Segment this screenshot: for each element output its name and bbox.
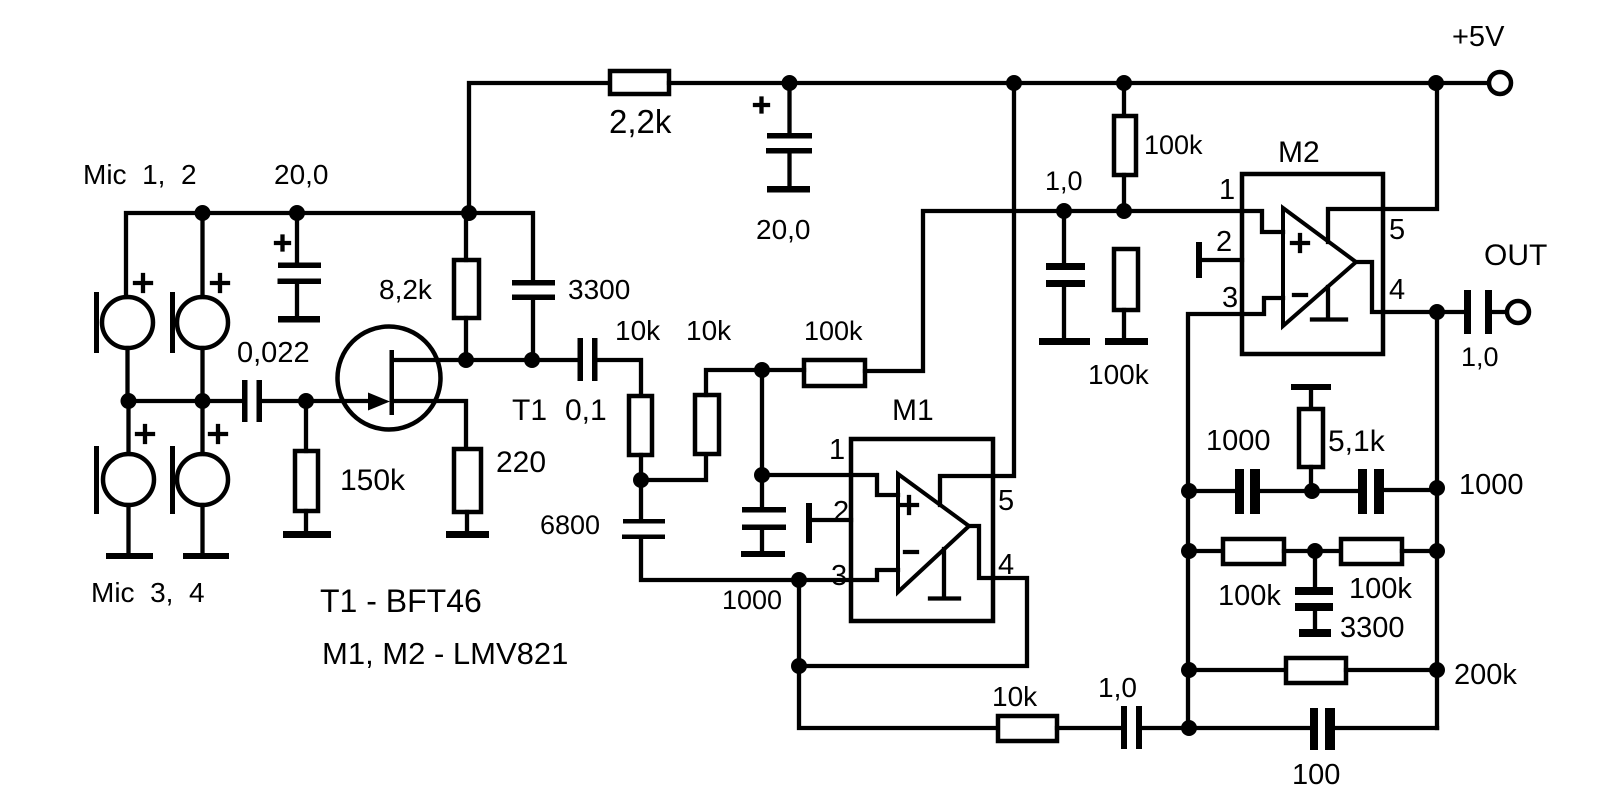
wire: M1 pin5 to +5V rail: [993, 83, 1014, 476]
wire: R9 right lead up to mid rail: [865, 211, 1242, 371]
wire: R9 left lead: [762, 368, 804, 372]
node: junction row2 left rail: [1181, 543, 1197, 559]
op-amp M2 triangle: [1283, 208, 1356, 326]
wire: mic signal bus to C3: [128, 399, 242, 403]
transistor Q1: gate arrow: [368, 393, 390, 411]
capacitor C2 20,0: top lead: [787, 83, 791, 133]
resistor R12 100k: [1341, 539, 1402, 564]
microphone Mic4: capsule bar: [170, 446, 175, 514]
capacitor C6 1,0: bottom lead: [1062, 287, 1066, 338]
node: junction row1 middle: [1304, 483, 1320, 499]
node: junction feedback/pin3 drop: [791, 658, 807, 674]
ground: mic3: [106, 553, 153, 559]
op-amp M2: pin3 internal stub: [1242, 298, 1283, 314]
svg-text:6800: 6800: [540, 510, 600, 540]
svg-text:0,1: 0,1: [565, 394, 607, 427]
svg-text:5,1k: 5,1k: [1328, 425, 1386, 458]
op-amp M2: pin2 open bar: [1196, 242, 1202, 278]
resistor R3 150k: [295, 451, 318, 511]
resistor R6 100k: [1114, 249, 1138, 310]
wire: 8,2k bottom lead: [464, 318, 468, 360]
capacitor C4 3300: plates: [512, 280, 555, 286]
node: junction row1 right rail: [1429, 480, 1445, 496]
svg-text:20,0: 20,0: [756, 214, 811, 245]
ground: 220: [446, 531, 489, 538]
node: junction M1 pin1 net top: [754, 362, 770, 378]
node: junction C1 on top rail: [289, 205, 305, 221]
wire: mic3 to ground: [126, 505, 130, 553]
svg-text:1000: 1000: [1206, 425, 1271, 457]
node: junction mic2 bus: [195, 393, 211, 409]
svg-text:1000: 1000: [1459, 469, 1524, 501]
capacitor C10 3300: top lead: [1313, 551, 1317, 587]
svg-text:10k: 10k: [992, 681, 1038, 712]
capacitor C10 3300: bottom stub: [1313, 611, 1317, 629]
op-amp M1: pin1 internal stub: [851, 475, 898, 495]
wire: +5V rail: [669, 81, 1488, 85]
capacitor C6 1,0: top lead: [1062, 211, 1066, 263]
op-amp M1: output to pin4: [969, 526, 993, 578]
op-amp M1: pin5 internal stub: [940, 476, 993, 505]
wire: R5 bottom lead: [1122, 175, 1126, 211]
wire: 150k top lead: [304, 401, 308, 451]
svg-text:1: 1: [829, 434, 845, 466]
resistor R10 5,1k: top stub: [1309, 390, 1313, 409]
svg-text:4: 4: [1389, 274, 1405, 306]
wire: mic4 to ground: [200, 505, 204, 553]
capacitor C7 6800: bottom lead to pin3 line: [641, 539, 851, 580]
microphone Mic3: + polarity: [137, 426, 153, 442]
wire: mic1 bottom to bus: [125, 348, 129, 401]
wire: R13 to C13: [1057, 726, 1121, 730]
svg-text:T1 - BFT46: T1 - BFT46: [320, 583, 482, 619]
svg-text:10k: 10k: [686, 315, 732, 346]
svg-text:3300: 3300: [1340, 612, 1405, 644]
node: junction row2 middle: [1307, 543, 1323, 559]
svg-text:M2: M2: [1278, 136, 1320, 169]
wire: feedback row1 left: [1189, 489, 1235, 493]
resistor R10 5,1k: top bar: [1291, 384, 1331, 390]
microphone Mic1: + polarity: [135, 275, 151, 291]
svg-text:OUT: OUT: [1484, 239, 1547, 272]
node: junction mic1 bus: [121, 393, 137, 409]
svg-text:1,0: 1,0: [1461, 342, 1499, 372]
node: junction R5/R6 on mid rail: [1116, 203, 1132, 219]
svg-text:8,2k: 8,2k: [379, 274, 433, 305]
op-amp M1: pin2 stub: [812, 518, 851, 522]
wire: C3 to gate node: [262, 399, 306, 403]
wire: bus down to mic3: [126, 401, 130, 454]
capacitor C2 20,0: + polarity: [755, 99, 768, 112]
node: junction row3 left rail: [1181, 662, 1197, 678]
resistor R1 2,2k: [610, 71, 669, 94]
op-amp M2: output to pin4: [1356, 262, 1383, 312]
wire: M2 pin4 out to C12: [1383, 310, 1464, 314]
svg-text:2: 2: [833, 496, 849, 528]
wire: pin1 net vertical: [760, 370, 764, 507]
ground: 150k: [283, 531, 331, 538]
wire: C5 to 10k R7: [597, 360, 641, 396]
svg-text:100k: 100k: [1349, 573, 1412, 605]
svg-text:100k: 100k: [1088, 359, 1150, 390]
wire: R5 top lead: [1122, 83, 1126, 116]
transistor Q1: source wire to 220: [393, 401, 466, 449]
microphone Mic3: capsule bar: [94, 446, 99, 514]
node: junction mic2 on top rail: [195, 205, 211, 221]
capacitor C2 20,0: plates: [767, 133, 812, 139]
node: junction output: [1429, 304, 1445, 320]
op-amp M2: pin2 stub: [1202, 258, 1242, 262]
capacitor C7 6800: plates: [623, 519, 665, 524]
capacitor C10 3300: plates: [1295, 587, 1333, 595]
svg-text:M1: M1: [892, 394, 934, 427]
wire: M1 feedback pin4 loop: [799, 578, 1027, 666]
wire: bottom row left: [1189, 726, 1310, 730]
wire: mic2 drop from top rail: [200, 213, 204, 297]
wire: row2 middle: [1284, 549, 1341, 553]
svg-text:1,0: 1,0: [1098, 672, 1137, 703]
svg-text:M1, M2 - LMV821: M1, M2 - LMV821: [322, 636, 568, 671]
wire: R6 bottom lead: [1122, 310, 1126, 338]
ground: C8: [741, 551, 785, 557]
op-amp M2: pin1 internal stub: [1242, 211, 1283, 232]
op-amp M1: power tail: [930, 549, 959, 599]
svg-text:3: 3: [1222, 282, 1238, 314]
wire: M2 pin3 to left feedback rail: [1188, 314, 1242, 728]
microphone Mic2: capsule bar: [170, 292, 175, 353]
svg-text:10k: 10k: [615, 315, 661, 346]
node: junction M1 pin1: [754, 467, 770, 483]
node: junction row3 right rail: [1429, 662, 1445, 678]
op-amp M2 box: [1242, 174, 1383, 354]
node: junction pin5 net on rail: [1006, 75, 1022, 91]
microphone Mic4: + polarity: [210, 426, 226, 442]
capacitor C1 20,0: lead from rail: [295, 213, 299, 263]
microphone Mic2: circle: [177, 297, 228, 348]
capacitor C13 1,0: plates: [1121, 706, 1127, 749]
svg-text:1000: 1000: [722, 585, 782, 615]
wire: link to R8 bottom: [641, 454, 706, 480]
capacitor C12 1,0: plates: [1464, 290, 1471, 334]
wire: pin3 node down to bottom run: [799, 666, 998, 728]
wire: R7 bottom lead: [639, 455, 643, 480]
transistor Q1: channel bar: [390, 350, 395, 415]
node: junction C6 on mid rail: [1056, 203, 1072, 219]
resistor R10 5,1k body: [1299, 409, 1323, 467]
wire: bus down to mic4: [200, 401, 204, 454]
resistor R13 10k (bottom): [998, 716, 1057, 741]
terminal: OUT open circle: [1507, 301, 1529, 323]
terminal: +5V open circle: [1489, 72, 1511, 94]
node: junction row1 left rail: [1181, 483, 1197, 499]
svg-text:1,0: 1,0: [1045, 166, 1083, 196]
op-amp M2: pin5 internal stub: [1328, 209, 1383, 242]
op-amp M2: + input mark: [1292, 235, 1308, 251]
wire: row3 right: [1346, 668, 1437, 672]
capacitor C1 20,0: end bar: [278, 316, 320, 323]
transistor Q1: gate wire from node: [306, 399, 372, 403]
capacitor C2 20,0: end bar: [767, 186, 810, 193]
svg-text:3300: 3300: [568, 274, 630, 305]
resistor R2 8,2k: [454, 260, 479, 318]
wire: feedback row3 left: [1189, 668, 1286, 672]
capacitor C6 1,0: plates: [1046, 263, 1085, 270]
capacitor C8: plates: [742, 507, 786, 513]
capacitor C7 6800: top lead: [639, 480, 643, 519]
svg-text:0,022: 0,022: [237, 337, 310, 369]
microphone Mic1: circle: [102, 297, 153, 348]
capacitor C1 20,0: + polarity: [276, 237, 289, 250]
wire: mic2 bottom to bus: [200, 348, 204, 401]
wire: row1 right: [1384, 488, 1437, 492]
svg-text:100k: 100k: [1218, 580, 1281, 612]
wire: to M1 pin1: [762, 473, 851, 477]
resistor R9 100k (horizontal): [804, 360, 865, 386]
svg-text:220: 220: [496, 446, 546, 479]
wire: C12 to OUT terminal: [1492, 310, 1506, 314]
ground: R6: [1105, 338, 1148, 345]
op-amp M1: - input mark: [905, 550, 917, 554]
wire: M2 pin5 up to +5V rail: [1383, 83, 1437, 209]
capacitor C3 0,022 plates: [242, 380, 248, 422]
transistor Q1 T1 circle: [338, 327, 441, 430]
node: junction 3300-drain: [524, 352, 540, 368]
op-amp M1 triangle: [898, 474, 969, 592]
resistor R5 100k: [1114, 116, 1136, 175]
wire: bottom row right: [1335, 726, 1437, 730]
capacitor C8: bottom lead: [760, 530, 764, 551]
wire: row1 middle: [1260, 489, 1358, 493]
svg-text:20,0: 20,0: [274, 159, 329, 190]
op-amp M1: pin2 open bar: [806, 503, 812, 543]
op-amp M1: + input mark: [901, 497, 917, 513]
node: junction C2 on +5V rail: [782, 75, 798, 91]
op-amp M1 box: [851, 439, 993, 621]
resistor R7 10k: [629, 396, 652, 455]
wire: right feedback rail: [1435, 312, 1439, 728]
transistor Q1: drain wire: [393, 358, 578, 362]
capacitor C11 100: plates: [1310, 708, 1318, 750]
node: junction 8,2k / supply drop on top rail: [461, 205, 477, 221]
svg-text:150k: 150k: [340, 464, 406, 497]
node: junction gate/150k: [298, 393, 314, 409]
svg-text:Mic 3, 4: Mic 3, 4: [91, 577, 205, 608]
svg-text:100: 100: [1292, 759, 1340, 791]
wire: C13 to left feedback rail: [1142, 726, 1189, 730]
capacitor C9a 1000: plates: [1235, 469, 1244, 514]
ground: C6: [1039, 338, 1090, 345]
resistor R14 200k: [1286, 658, 1346, 683]
wire: row2 right: [1402, 549, 1437, 553]
svg-text:5: 5: [998, 485, 1014, 517]
node: junction 100k top on +5V rail: [1116, 75, 1132, 91]
node: junction row2 right rail: [1429, 543, 1445, 559]
wire: mic bus top rail: [126, 213, 533, 297]
wire: feedback row2 left: [1189, 549, 1223, 553]
microphone Mic1: capsule bar: [94, 292, 99, 353]
resistor R8 10k: [695, 395, 719, 454]
microphone Mic2: + polarity: [212, 275, 228, 291]
svg-text:T1: T1: [512, 394, 547, 427]
svg-text:5: 5: [1389, 214, 1405, 246]
svg-text:100k: 100k: [1144, 130, 1203, 160]
wire: R8 top lead to 100k node: [706, 370, 762, 395]
capacitor C2 20,0: lower lead: [787, 153, 791, 186]
capacitor C5 0,1: plates: [578, 338, 584, 381]
wire: 220 bottom lead: [465, 512, 469, 531]
resistor R11 100k: [1223, 539, 1284, 564]
node: junction bottom left rail: [1181, 720, 1197, 736]
resistor R10 bottom lead: [1309, 467, 1313, 491]
svg-text:+5V: +5V: [1452, 21, 1505, 53]
node: junction 8,2k-drain: [458, 352, 474, 368]
microphone Mic3: circle: [103, 454, 154, 505]
microphone Mic4: circle: [177, 454, 228, 505]
node: junction pin5 net on +5V rail: [1428, 75, 1444, 91]
wire: 150k bottom lead: [304, 511, 308, 531]
wire: 8,2k top lead: [464, 213, 468, 260]
svg-text:3: 3: [831, 560, 847, 592]
ground: mic4: [183, 553, 229, 559]
capacitor C1 20,0: lower lead: [295, 284, 299, 316]
resistor R4 220: [454, 449, 481, 512]
svg-text:2,2k: 2,2k: [609, 103, 672, 140]
node: junction R7/R8/6800: [633, 472, 649, 488]
wire: top rail up to 2,2k: [469, 83, 610, 213]
capacitor C9b 1000: plates: [1358, 469, 1367, 514]
node: junction M1 pin3: [791, 572, 807, 588]
capacitor C4 3300: bottom lead: [531, 300, 535, 360]
svg-text:100k: 100k: [804, 316, 863, 346]
svg-text:Mic 1, 2: Mic 1, 2: [83, 159, 197, 190]
op-amp M2: power tail: [1312, 287, 1346, 320]
capacitor C10 3300: end bar: [1299, 629, 1331, 637]
svg-text:1: 1: [1219, 174, 1235, 206]
svg-text:200k: 200k: [1454, 659, 1517, 691]
op-amp M2: - input mark: [1294, 293, 1306, 297]
svg-text:2: 2: [1216, 226, 1232, 258]
op-amp M1: pin3 internal stub: [851, 570, 898, 580]
capacitor C1 20,0: plates: [278, 263, 321, 269]
